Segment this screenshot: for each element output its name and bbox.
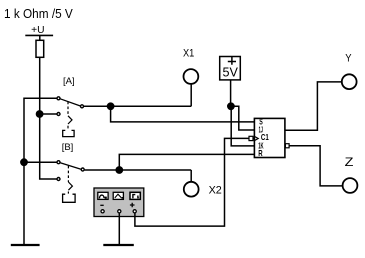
svg-text:X1: X1: [183, 48, 194, 60]
switch A actuator dashed line: [67, 102, 69, 116]
node junction switch B / X2 / R wire: [115, 166, 123, 174]
function generator plus label: [130, 203, 135, 208]
wire switch A common to X1 drop: [84, 105, 191, 107]
terminal Z: [343, 178, 358, 193]
wire Q output to terminal Y: [285, 82, 342, 130]
svg-text:R: R: [258, 149, 262, 158]
terminal Y: [342, 74, 357, 89]
switch B actuator zigzag: [68, 182, 72, 190]
svg-text:1 k Ohm /5 V: 1 k Ohm /5 V: [4, 6, 73, 21]
flip-flop U1 body: [254, 118, 285, 157]
svg-text:[B]: [B]: [62, 142, 74, 153]
switch B key cap symbol: [63, 194, 76, 202]
voltage source V1 5V box: [220, 57, 241, 80]
wire inverted Q output to terminal Z: [289, 146, 342, 186]
switch A upper contact: [57, 97, 60, 100]
wire ground rail to switch B upper contact: [24, 161, 57, 163]
wire node to S input of flip-flop: [111, 106, 255, 122]
flip-flop clock chevron: [254, 136, 258, 140]
flip-flop clock terminal square: [249, 136, 253, 140]
flip-flop inverted output square bubble: [285, 144, 289, 148]
wire plus terminal to clock C1 input: [135, 138, 255, 226]
switch A lower contact: [57, 113, 60, 116]
switch A actuator dash below zigzag: [67, 126, 69, 129]
svg-text:5V: 5V: [223, 65, 239, 80]
wire node branch to 1J input: [231, 106, 254, 130]
voltage source plus sign: [228, 57, 236, 65]
svg-text:Y: Y: [345, 53, 352, 65]
svg-text:X2: X2: [209, 185, 222, 197]
terminal X2: [184, 182, 199, 197]
function generator minus label: [100, 204, 103, 206]
ground (left): [11, 244, 40, 246]
wire +U bar to resistor top: [39, 35, 41, 40]
function generator minus terminal: [101, 210, 104, 213]
function generator triangle button: [113, 192, 123, 199]
switch B actuator dash below zigzag: [67, 192, 69, 194]
svg-text:+U: +U: [31, 25, 44, 36]
switch B common contact: [81, 168, 84, 171]
svg-text:[A]: [A]: [63, 76, 75, 87]
wire node down to 1K input: [231, 106, 254, 146]
switch B blade: [60, 163, 81, 169]
wire node A stub to switch A lower contact: [40, 113, 57, 115]
ground (middle): [103, 244, 134, 246]
node junction 5V / 1J / 1K: [227, 102, 235, 110]
switch B upper contact: [57, 161, 60, 164]
node junction ground rail/switch B: [20, 158, 28, 166]
function generator box: [94, 188, 144, 217]
wire 5V source down to node: [230, 80, 232, 106]
terminal X1: [184, 69, 199, 84]
function generator sine button: [98, 192, 108, 199]
power +U rail bar: [25, 34, 53, 36]
wire switch B common to X2 drop: [85, 169, 192, 171]
wire X2 drop vertical: [190, 170, 192, 182]
node junction resistor/switch A: [36, 110, 44, 118]
wire common terminal to middle ground: [118, 213, 120, 244]
switch B actuator dashed line: [67, 166, 69, 182]
switch A key cap symbol: [63, 130, 74, 136]
function generator plus terminal: [133, 210, 136, 213]
resistor R1 1k body: [36, 40, 44, 57]
function generator square button: [130, 192, 140, 199]
wire X1 drop vertical: [190, 84, 192, 106]
wire node to R input of flip-flop: [119, 154, 254, 170]
function generator common terminal: [118, 210, 121, 213]
node junction switch A / X1 / S wire: [107, 102, 115, 110]
wire ground rail: corner at top to left ground: [24, 98, 57, 244]
switch B lower contact: [57, 178, 60, 181]
switch A blade: [60, 99, 80, 106]
switch A common contact: [81, 105, 84, 108]
svg-text:Z: Z: [345, 155, 354, 169]
switch A actuator zigzag: [68, 116, 72, 124]
wire resistor bottom down to switch B lower contact corner: [40, 57, 57, 179]
